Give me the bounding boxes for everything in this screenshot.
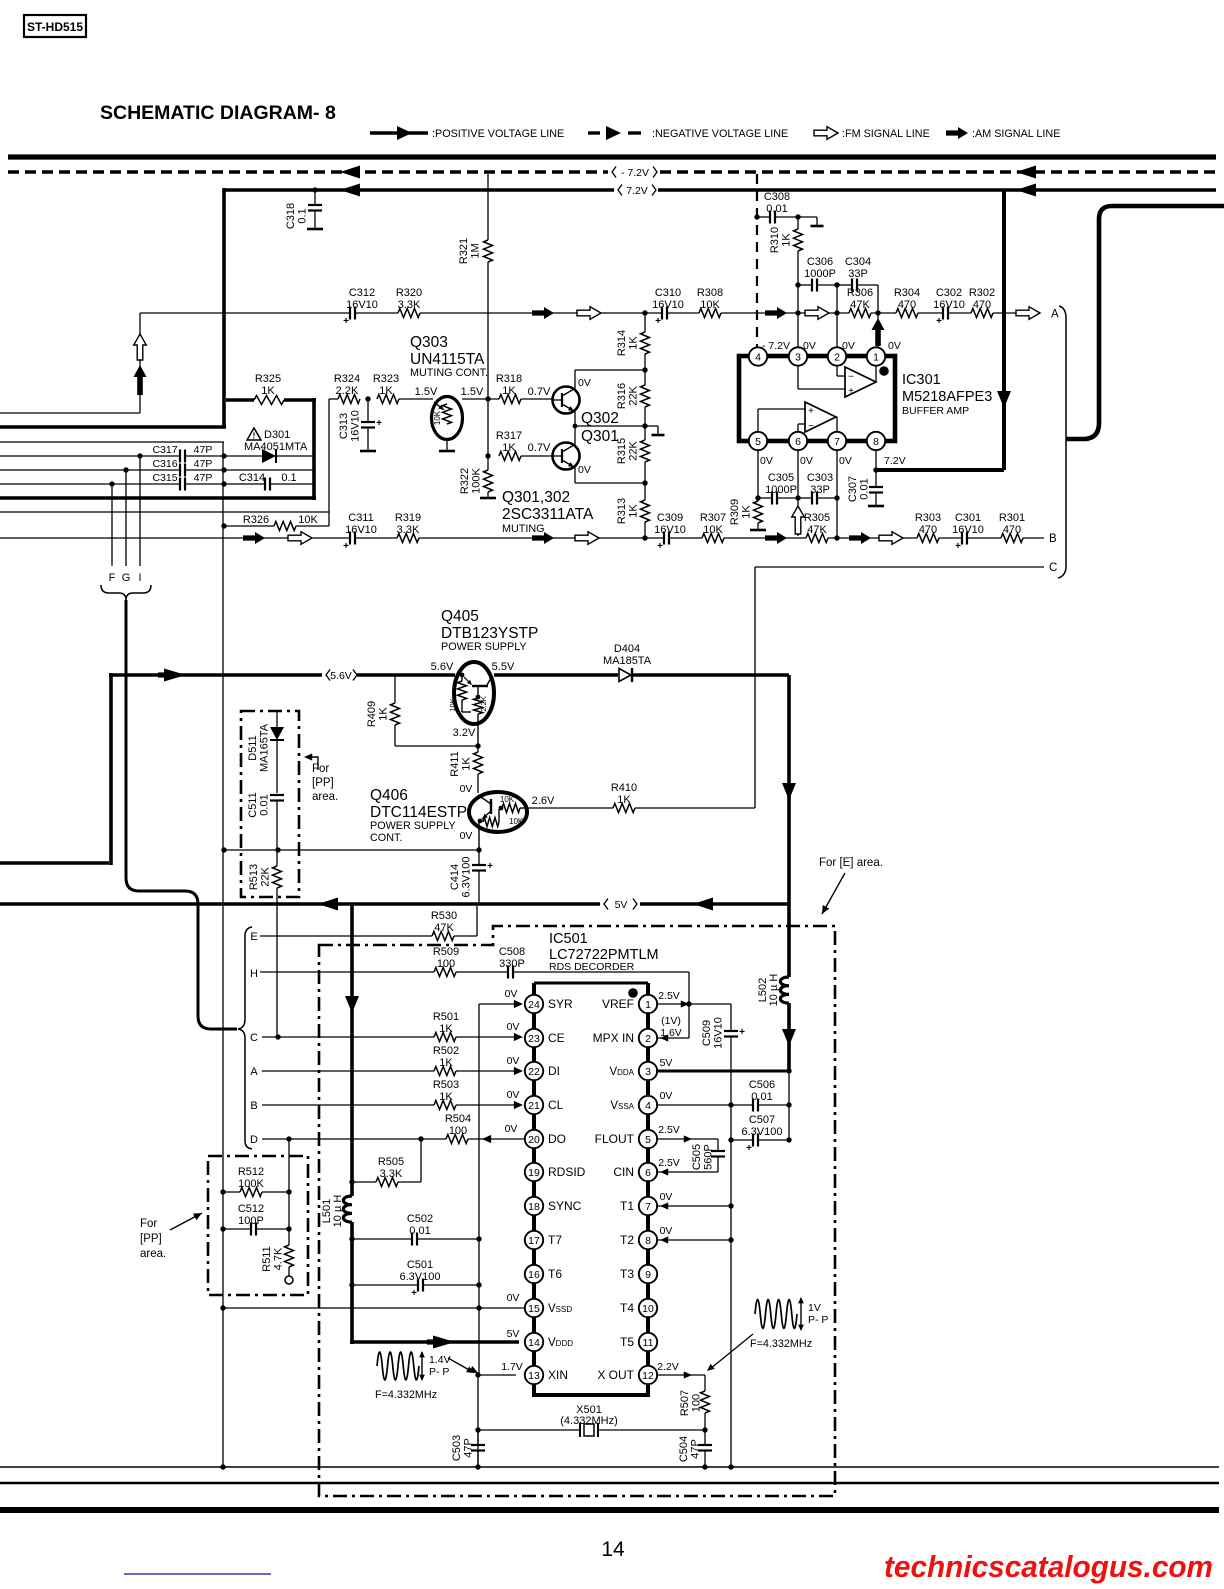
arrow on VREF out [681, 1000, 689, 1007]
brace under F G I [101, 585, 151, 600]
net label 5V [604, 899, 608, 910]
svg-text:C505: C505 [691, 1144, 703, 1170]
svg-text:16V10: 16V10 [346, 299, 378, 311]
wire input stub [0, 412, 140, 414]
svg-text:16V10: 16V10 [713, 1017, 725, 1049]
svg-text:SYNC: SYNC [548, 1199, 582, 1213]
svg-text:33P: 33P [848, 268, 868, 280]
wire R410 to corner [635, 807, 755, 809]
svg-text:R307: R307 [700, 512, 726, 524]
svg-text:VSSD: VSSD [548, 1303, 572, 1315]
svg-text:560P: 560P [703, 1144, 715, 1170]
svg-text:22: 22 [528, 1066, 540, 1078]
svg-text:1000P: 1000P [765, 484, 797, 496]
svg-text:CL: CL [548, 1098, 564, 1112]
arrow AM line B second [532, 532, 554, 544]
svg-text:7.2V: 7.2V [884, 455, 906, 467]
svg-text:3: 3 [795, 351, 801, 363]
resistor R324 [338, 395, 360, 404]
pin 15 VSSD of IC501 [525, 1299, 543, 1317]
svg-text:+: + [739, 1027, 745, 1038]
svg-text:C310: C310 [655, 287, 681, 299]
wire IC301 7.2V feed horizontal to pin8 [876, 468, 1004, 472]
node rail bottom [642, 535, 647, 540]
svg-text:technicscatalogus.com: technicscatalogus.com [884, 1550, 1213, 1584]
svg-text:0V: 0V [507, 1055, 520, 1067]
capacitor C318 [312, 187, 317, 192]
resistor R313 [644, 462, 646, 500]
wire R310 bottom to line A [797, 285, 799, 313]
wire pin8 stub [875, 450, 877, 471]
svg-text:C511: C511 [247, 792, 259, 817]
svg-text:R309: R309 [729, 499, 741, 525]
svg-text:1M: 1M [470, 243, 482, 258]
svg-text:100: 100 [437, 958, 455, 970]
node C303 right [834, 495, 839, 500]
svg-text:7.2V: 7.2V [626, 185, 648, 197]
svg-text:1K: 1K [261, 385, 275, 397]
wire 5.6V to Q405 [357, 673, 455, 677]
pin 8 T2 of IC501 [639, 1231, 657, 1249]
svg-text:C508: C508 [499, 946, 525, 958]
bracket for E H C A B D rows [238, 927, 252, 1149]
svg-text::AM SIGNAL LINE: :AM SIGNAL LINE [972, 128, 1060, 140]
wire pin1 feed [877, 313, 879, 348]
IC301 pin1 marker dot [879, 366, 889, 376]
arrow waveform XOUT pointer [710, 1334, 753, 1369]
resistor R316 [644, 354, 646, 385]
wire bottom bus [0, 1482, 1219, 1485]
svg-text:R318: R318 [496, 373, 522, 385]
node D row R505 [418, 1136, 423, 1141]
svg-text:BUFFER AMP: BUFFER AMP [902, 405, 969, 417]
wire 7.2V bus corner down [222, 188, 226, 428]
svg-text:C: C [250, 1032, 258, 1044]
wire C304 to pin1 node [877, 285, 879, 313]
wire Q303 emitter [446, 440, 448, 451]
pin 13 XIN of IC501 [525, 1366, 543, 1384]
svg-text:470: 470 [898, 299, 916, 311]
dash-dot box For E area [319, 926, 835, 1496]
svg-text:47P: 47P [463, 1438, 475, 1458]
pin 7 T1 of IC501 [639, 1197, 657, 1215]
svg-text:C504: C504 [678, 1436, 690, 1462]
svg-text:16V10: 16V10 [952, 524, 984, 536]
svg-text:10K: 10K [448, 698, 457, 711]
IC IC501 right rail [646, 983, 650, 1395]
pin 3 of IC301 [789, 347, 807, 365]
svg-text:POWER SUPPLY: POWER SUPPLY [370, 820, 456, 832]
svg-text:RDS DECORDER: RDS DECORDER [549, 961, 635, 973]
svg-text:1K: 1K [502, 442, 516, 454]
node pin1 feed junction [875, 310, 880, 315]
svg-text:R321: R321 [458, 238, 470, 264]
pin 7 of IC301 [828, 432, 846, 450]
svg-text:POWER SUPPLY: POWER SUPPLY [441, 641, 527, 653]
node C503 ground [475, 1464, 480, 1469]
node C504 ground [702, 1464, 707, 1469]
capacitor C508 [507, 966, 509, 979]
svg-text:C317: C317 [152, 444, 177, 456]
svg-text:3.3K: 3.3K [397, 524, 420, 536]
wire pin3 feed [797, 313, 799, 348]
svg-text:8: 8 [645, 1235, 651, 1247]
wire row y512 [0, 511, 329, 513]
svg-text:DTC114ESTP: DTC114ESTP [370, 804, 467, 821]
svg-text:5.6V: 5.6V [431, 661, 454, 673]
svg-text:6.3V100: 6.3V100 [742, 1126, 783, 1138]
legend FM signal line symbol [814, 127, 838, 140]
svg-text:2.2K: 2.2K [336, 385, 359, 397]
svg-text:H: H [250, 968, 258, 980]
arrow FM up pin6 [792, 506, 805, 534]
wire FGI cable down [126, 600, 198, 904]
svg-text:+: + [376, 418, 382, 429]
arrow on 5V bus right [693, 898, 713, 911]
svg-text:16: 16 [528, 1269, 540, 1281]
svg-text:VREF: VREF [602, 997, 634, 1011]
wire [521, 455, 553, 457]
svg-text:1K: 1K [439, 1091, 453, 1103]
svg-text:100K: 100K [238, 1178, 264, 1190]
svg-text:+: + [746, 1143, 752, 1154]
svg-text:R505: R505 [378, 1156, 404, 1168]
svg-text:For [E] area.: For [E] area. [819, 857, 883, 869]
pin 22 DI of IC501 [525, 1062, 543, 1080]
resistor R326 [274, 522, 296, 531]
node R507 bottom [702, 1427, 707, 1432]
svg-text:- 7.2V: - 7.2V [621, 167, 649, 179]
wire [356, 312, 398, 314]
capacitor C303 [798, 497, 812, 499]
arrow For PP area first [307, 757, 318, 770]
svg-text:D511: D511 [247, 735, 259, 760]
resistor R501 [434, 1033, 456, 1042]
IC IC501 left rail [532, 983, 536, 1395]
dash-dot box For PP area D511 [241, 711, 299, 897]
svg-text:IC301: IC301 [902, 372, 941, 388]
svg-text:C318: C318 [285, 203, 297, 229]
arrow into pin22 [514, 1067, 523, 1075]
svg-text:0.1: 0.1 [297, 208, 309, 223]
svg-text:R324: R324 [334, 373, 360, 385]
resistor R410 [613, 804, 635, 813]
svg-text:1K: 1K [502, 385, 516, 397]
svg-text:16V10: 16V10 [652, 299, 684, 311]
wire Q302 collector [574, 370, 576, 389]
wire C508 to MPX corner [514, 971, 689, 973]
wire VSSD row [223, 1307, 525, 1309]
svg-text:R501: R501 [433, 1011, 459, 1023]
node C506 right [786, 1102, 791, 1107]
wire [186, 469, 314, 471]
svg-text:MUTING CONT.: MUTING CONT. [410, 367, 488, 379]
node mid rail [642, 423, 647, 428]
pin 21 CL of IC501 [525, 1096, 543, 1114]
wire H row [260, 971, 434, 973]
waveform XIN [377, 1352, 419, 1380]
svg-text:VSSA: VSSA [610, 1100, 634, 1112]
resistor R301 [1001, 534, 1023, 543]
wire 5.6V feed left [0, 861, 109, 865]
wire 5V feed down [350, 904, 354, 1196]
node F line C315 [109, 481, 114, 486]
svg-text:R306: R306 [847, 287, 873, 299]
node 0V x224 [221, 847, 226, 852]
svg-text:T4: T4 [620, 1301, 634, 1315]
svg-text:1: 1 [873, 351, 879, 363]
svg-text:R513: R513 [248, 864, 260, 890]
legend negative voltage line symbol [588, 131, 600, 134]
svg-text:−: − [808, 421, 814, 432]
svg-text:A: A [1051, 309, 1059, 321]
svg-text:R301: R301 [999, 512, 1025, 524]
arrow down on 7.2V feed [997, 391, 1011, 408]
bottom border bar [0, 1507, 1219, 1513]
node rail VSSD cross [476, 1305, 481, 1310]
svg-text:R530: R530 [431, 910, 457, 922]
resistor R303 [917, 534, 939, 543]
svg-text:0V: 0V [800, 455, 813, 467]
svg-text:−: − [848, 372, 854, 383]
svg-text:6.3V100: 6.3V100 [461, 857, 473, 898]
svg-text:0.1: 0.1 [281, 472, 296, 484]
svg-text:18: 18 [528, 1201, 540, 1213]
bracket for nodes A B C [1058, 306, 1066, 578]
arrow into pin2 [660, 1034, 668, 1041]
svg-text:16V10: 16V10 [350, 410, 362, 442]
svg-text:5.5V: 5.5V [492, 661, 515, 673]
wire Q302 emitter to Q301 collector [574, 411, 576, 426]
svg-text:R507: R507 [679, 1390, 691, 1416]
svg-text:For: For [140, 1218, 157, 1230]
svg-text:UN4115TA: UN4115TA [410, 351, 485, 368]
svg-text:E: E [250, 931, 257, 943]
svg-text:R410: R410 [611, 782, 637, 794]
node rail top [642, 310, 647, 315]
svg-text:X OUT: X OUT [597, 1368, 634, 1382]
wire thick bottom edge [0, 496, 316, 500]
svg-text:47P: 47P [194, 472, 213, 484]
svg-text:C: C [1049, 562, 1057, 574]
wire XIN row [478, 1374, 516, 1376]
svg-text:0V: 0V [578, 377, 591, 389]
svg-text:10K: 10K [703, 524, 723, 536]
svg-text:C509: C509 [701, 1020, 713, 1046]
pin 5 FLOUT of IC501 [639, 1130, 657, 1148]
svg-text:R326: R326 [243, 514, 269, 526]
node x224 C316 [221, 467, 226, 472]
wire VDDA row [656, 1070, 789, 1073]
svg-text:470: 470 [1003, 524, 1021, 536]
wire B row [262, 1104, 434, 1106]
svg-text:RDSID: RDSID [548, 1165, 586, 1179]
capacitor C317 [179, 450, 181, 463]
resistor R320 [398, 309, 420, 318]
svg-text:C304: C304 [845, 256, 871, 268]
wire op-amp output to pin1 [875, 365, 877, 383]
wire dashed pin4 feed [756, 174, 758, 348]
svg-text:10 µ H: 10 µ H [332, 1195, 344, 1228]
wire VSSA row [656, 1104, 753, 1106]
wire T1 row [656, 1205, 731, 1207]
svg-text:R304: R304 [894, 287, 920, 299]
pin 9 T3 of IC501 [639, 1265, 657, 1283]
svg-text:M5218AFPE3: M5218AFPE3 [902, 389, 992, 405]
positive 7.2V bus wire [224, 188, 614, 192]
svg-text:C512: C512 [238, 1203, 264, 1215]
svg-text:ST-HD515: ST-HD515 [27, 20, 83, 34]
node crystal left [475, 1427, 480, 1432]
svg-text:C506: C506 [749, 1079, 775, 1091]
node XIN junction [475, 1372, 480, 1377]
arrow AM on line A [532, 307, 554, 319]
svg-text:C503: C503 [451, 1435, 463, 1461]
resistor R502 [434, 1067, 456, 1076]
svg-text:A: A [250, 1066, 258, 1078]
wire [968, 537, 1001, 539]
svg-text:C311: C311 [348, 512, 373, 524]
svg-text:3.2V: 3.2V [453, 727, 476, 739]
svg-text:C501: C501 [407, 1259, 433, 1271]
arrow waveform XIN pointer [448, 1358, 471, 1371]
wire row C317 [0, 455, 180, 457]
resistor R511 [288, 1192, 290, 1245]
wire C row [262, 1036, 434, 1038]
arrow into pin6 [660, 1168, 668, 1175]
capacitor C504 [704, 1430, 706, 1445]
svg-text:SYR: SYR [548, 997, 573, 1011]
svg-text:C316: C316 [152, 458, 177, 470]
svg-text:C301: C301 [955, 512, 981, 524]
arrow AM up on input branch [134, 365, 147, 395]
svg-text:P- P: P- P [429, 1366, 449, 1378]
svg-text:0V: 0V [507, 1292, 520, 1304]
resistor R323 [377, 395, 399, 404]
arrow AM line B [243, 532, 265, 544]
svg-text:0V: 0V [507, 1021, 520, 1033]
svg-text:1K: 1K [781, 233, 793, 247]
wire MPX IN row [656, 1037, 689, 1039]
svg-text:22K: 22K [260, 867, 272, 887]
svg-text:2.2K: 2.2K [479, 696, 488, 711]
svg-text:C305: C305 [768, 472, 794, 484]
svg-text:10K: 10K [509, 817, 524, 826]
svg-text:1K: 1K [628, 336, 640, 350]
wire crystal row [478, 1429, 580, 1431]
node VSSA x731 [728, 1102, 733, 1107]
wire [296, 525, 329, 527]
node 0V row Q406 [476, 847, 481, 852]
resistor R504 [446, 1135, 468, 1144]
svg-text:47P: 47P [194, 458, 213, 470]
wire thick left bus [0, 425, 226, 429]
svg-text:R503: R503 [433, 1079, 459, 1091]
wire A row [262, 1070, 434, 1072]
svg-text:+: + [343, 541, 349, 552]
svg-text:0.01: 0.01 [859, 478, 871, 499]
svg-text:0V: 0V [760, 455, 773, 467]
IC IC501 bottom edge [532, 1393, 650, 1397]
svg-text:R325: R325 [255, 373, 281, 385]
svg-text:R409: R409 [366, 701, 378, 727]
wire ground rail bottom [0, 1466, 1219, 1468]
svg-text:CE: CE [548, 1031, 565, 1045]
svg-text:- 7.2V: - 7.2V [762, 340, 790, 352]
svg-text:Q301,302: Q301,302 [502, 489, 570, 506]
svg-text:7: 7 [645, 1201, 651, 1213]
svg-text:1K: 1K [617, 794, 631, 806]
svg-text:SCHEMATIC DIAGRAM- 8: SCHEMATIC DIAGRAM- 8 [100, 102, 336, 124]
svg-text:1.7V: 1.7V [501, 1361, 523, 1373]
svg-text:R411: R411 [449, 751, 461, 776]
svg-text:1: 1 [645, 999, 651, 1011]
svg-text:0.7V: 0.7V [528, 442, 551, 454]
node R317 junction [485, 453, 490, 458]
svg-text:C307: C307 [847, 476, 859, 502]
svg-text:+: + [955, 541, 961, 552]
wire CIN row [656, 1171, 718, 1173]
wire T2 row [656, 1239, 731, 1241]
svg-text:T6: T6 [548, 1267, 562, 1281]
svg-text:Q406: Q406 [370, 787, 408, 804]
arrow AM line B fourth [849, 532, 871, 544]
resistor R315 [644, 407, 646, 440]
svg-text:5V: 5V [615, 899, 628, 911]
wire [939, 537, 962, 539]
transistor Q301 [553, 443, 580, 470]
svg-text:24: 24 [528, 999, 540, 1011]
svg-text:+: + [657, 541, 663, 552]
svg-text:330P: 330P [499, 958, 525, 970]
pin 11 T5 of IC501 [639, 1333, 657, 1351]
svg-text:MPX IN: MPX IN [593, 1031, 634, 1045]
negative -7.2V dashed bus wire [8, 170, 608, 174]
resistor R314 [644, 313, 646, 332]
wire L502 down [787, 1003, 791, 1071]
svg-text:2: 2 [645, 1033, 651, 1045]
svg-text:1K: 1K [741, 505, 753, 519]
transistor Q302 [553, 387, 580, 414]
svg-text:4: 4 [755, 351, 761, 363]
svg-text:CIN: CIN [613, 1165, 634, 1179]
svg-text:C315: C315 [152, 472, 177, 484]
wire x789 down [788, 1071, 790, 1140]
svg-text:MA4051MTA: MA4051MTA [244, 441, 308, 453]
resistor R304 [896, 309, 918, 318]
IC IC501 top edge [534, 982, 648, 985]
wire 1.5V row stub [329, 398, 338, 400]
svg-text:0.7V: 0.7V [528, 386, 551, 398]
blue underline [124, 1573, 271, 1575]
node T2 rail [728, 1237, 733, 1242]
pin 2 MPX IN of IC501 [639, 1029, 657, 1047]
op-amp U1b triangle [805, 402, 836, 432]
capacitor C314 [264, 478, 266, 491]
resistor R509 [434, 968, 456, 977]
svg-text:+: + [848, 386, 854, 397]
dash-dot box For PP area second [208, 1156, 308, 1295]
svg-text:1.5V: 1.5V [415, 386, 438, 398]
net label 7.2V [618, 185, 622, 196]
svg-text:R319: R319 [395, 512, 421, 524]
node pin7 line B [834, 535, 839, 540]
resistor R317 [499, 452, 521, 461]
svg-text:!: ! [253, 432, 256, 441]
wire R326 row [221, 523, 226, 528]
svg-text:R502: R502 [433, 1045, 459, 1057]
svg-text:1.4V: 1.4V [429, 1354, 451, 1366]
